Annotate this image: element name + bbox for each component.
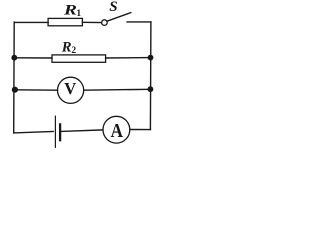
wire ammeter to bottom-right corner — [130, 129, 151, 131]
label R1 — [63, 1, 82, 18]
wire row2 left — [14, 57, 52, 59]
wire row3 right — [84, 88, 151, 91]
svg-text:R: R — [61, 39, 72, 55]
wire row2 right — [106, 57, 151, 59]
wire switch to top-right corner — [127, 21, 151, 23]
wire left vertical — [13, 22, 16, 133]
svg-text:R: R — [63, 1, 77, 17]
node dot right row3 — [148, 86, 154, 92]
wire battery to ammeter — [61, 130, 103, 132]
wire top-left horizontal — [14, 21, 48, 23]
resistor R2 — [52, 55, 106, 62]
wire row3 left — [14, 89, 57, 91]
ammeter A — [103, 116, 130, 143]
voltmeter V — [58, 77, 84, 103]
wire right vertical — [149, 22, 152, 130]
svg-text:1: 1 — [76, 9, 81, 19]
svg-text:V: V — [64, 79, 76, 98]
svg-text:S: S — [109, 0, 117, 15]
switch S — [102, 13, 131, 26]
node dot left row3 — [12, 87, 18, 93]
node dot right row2 — [148, 55, 154, 61]
battery cell — [55, 116, 60, 147]
svg-text:A: A — [111, 120, 123, 142]
label R2 — [61, 39, 77, 55]
svg-text:2: 2 — [71, 46, 76, 56]
wire R1 to switch — [82, 21, 101, 23]
resistor R1 — [48, 18, 82, 25]
wire bottom-left — [14, 132, 54, 133]
node dot left row2 — [11, 55, 17, 61]
